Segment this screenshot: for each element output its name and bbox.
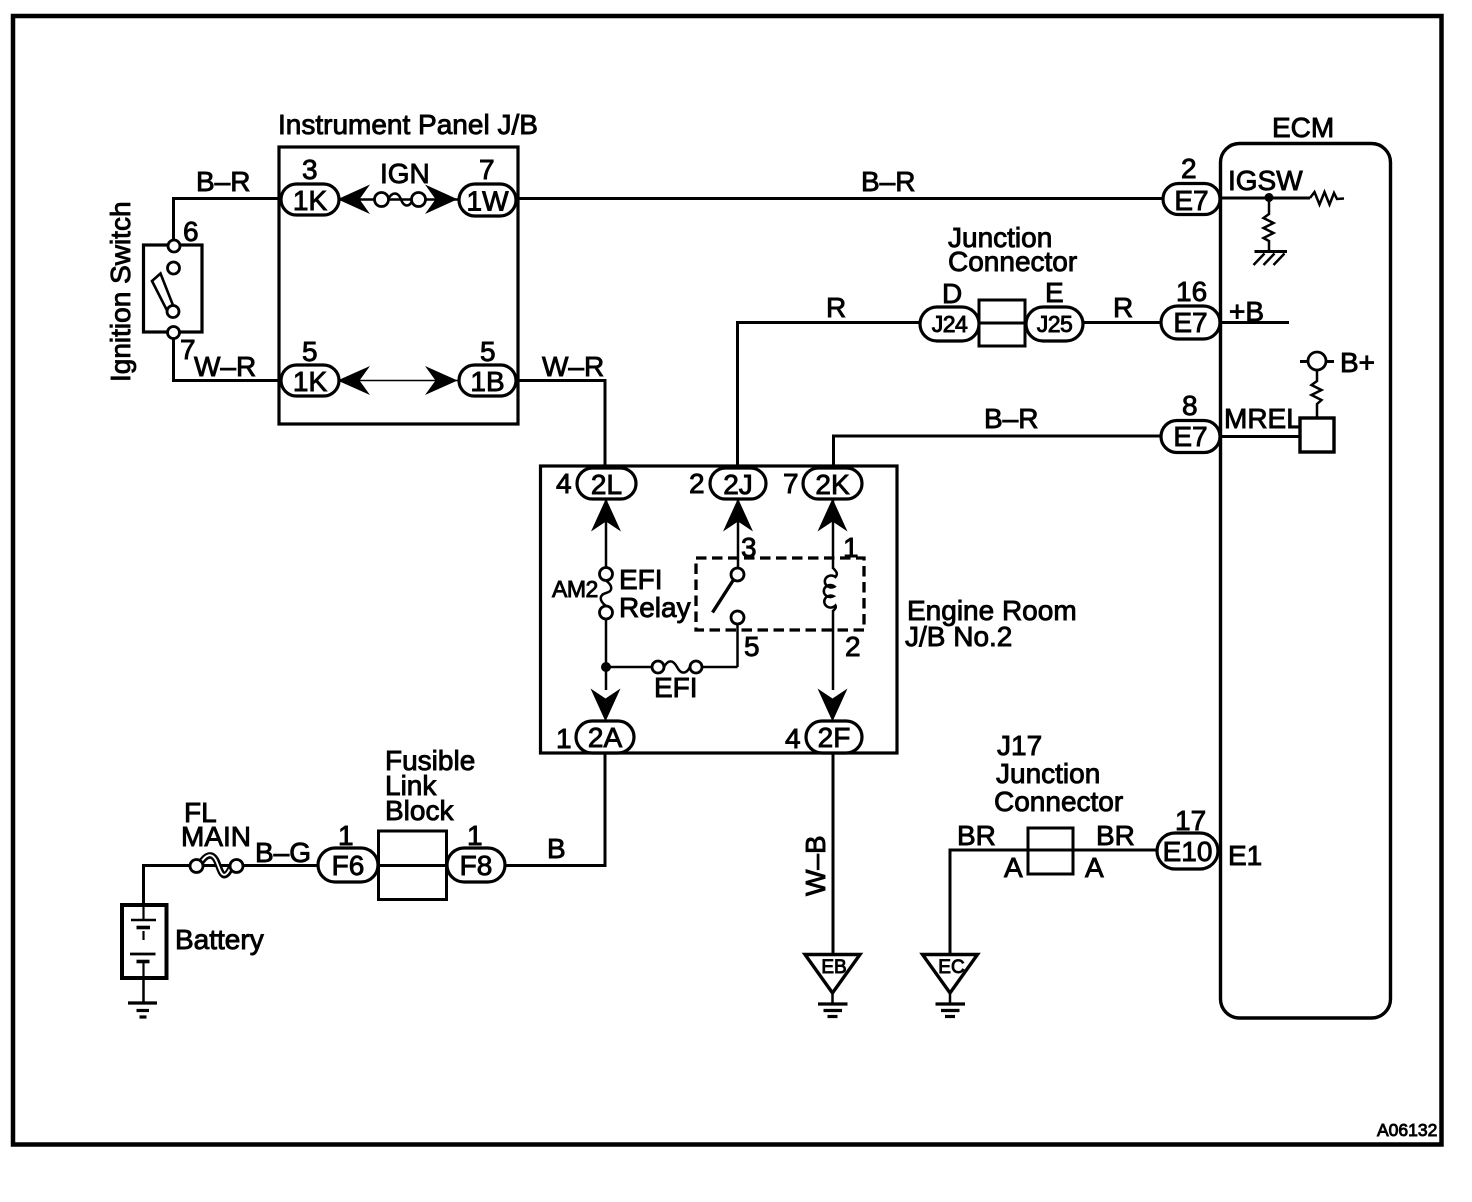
chevron arrow left (1K side, bottom row) bbox=[338, 366, 371, 395]
chevron arrow up into 2J bbox=[723, 499, 753, 532]
wire battery to F6 bbox=[144, 866, 319, 906]
svg-text:5: 5 bbox=[302, 336, 318, 367]
label MREL bbox=[1224, 403, 1302, 434]
svg-text:Junction: Junction bbox=[996, 758, 1100, 789]
svg-text:2F: 2F bbox=[818, 722, 851, 753]
ignition switch lever bbox=[152, 274, 174, 310]
connector 2K pin 7 bbox=[803, 468, 862, 500]
svg-text:1K: 1K bbox=[293, 366, 328, 397]
EFI relay dashed box bbox=[696, 558, 864, 630]
chevron arrow up into 2L bbox=[591, 499, 621, 532]
pin number 6 bbox=[183, 216, 199, 247]
svg-text:F6: F6 bbox=[332, 850, 365, 881]
MREL relay coil box bbox=[1300, 418, 1334, 452]
svg-text:4: 4 bbox=[785, 723, 801, 754]
ignition switch pin 7 terminal bbox=[168, 327, 180, 339]
pin number 16 bbox=[1176, 276, 1207, 307]
wire +B internal bbox=[1220, 321, 1289, 324]
wire B-R from 2K up to E7 pin 8 bbox=[834, 436, 1164, 468]
svg-text:6: 6 bbox=[183, 216, 199, 247]
pin number 17 bbox=[1175, 805, 1206, 836]
wire B-R from 1W to ECM E7 pin 2 bbox=[516, 197, 1163, 200]
pin number 4 bbox=[556, 468, 572, 499]
svg-text:Connector: Connector bbox=[948, 246, 1077, 277]
label Junction Connector bbox=[948, 222, 1077, 277]
label AM2 bbox=[552, 576, 598, 602]
svg-text:7: 7 bbox=[180, 334, 196, 365]
svg-text:1: 1 bbox=[556, 723, 572, 754]
label J17 Junction Connector bbox=[994, 730, 1123, 817]
svg-text:IGN: IGN bbox=[380, 158, 430, 189]
label IGSW bbox=[1228, 165, 1303, 196]
chevron arrow down into 2A bbox=[591, 689, 621, 722]
svg-text:B–G: B–G bbox=[255, 837, 311, 868]
svg-text:D: D bbox=[942, 278, 962, 309]
svg-text:E1: E1 bbox=[1228, 840, 1262, 871]
label R right bbox=[1113, 292, 1133, 323]
connector 1B pin 5 bbox=[459, 365, 516, 397]
relay switch contact upper bbox=[731, 568, 744, 581]
pin number 3 bbox=[302, 154, 318, 185]
ground EB bbox=[805, 955, 860, 1017]
svg-text:BR: BR bbox=[1096, 820, 1135, 851]
label IGN bbox=[380, 158, 430, 189]
connector 1W pin 7 bbox=[459, 184, 516, 217]
resistor IGSW (horizontal zigzag) bbox=[1310, 192, 1344, 205]
svg-text:E: E bbox=[1045, 277, 1064, 308]
fuse AM2 bbox=[600, 568, 613, 620]
label EFI Relay bbox=[619, 564, 691, 623]
svg-text:IGSW: IGSW bbox=[1228, 165, 1303, 196]
label Battery bbox=[175, 924, 264, 955]
svg-text:R: R bbox=[1113, 292, 1133, 323]
label ECM bbox=[1272, 112, 1334, 143]
svg-text:E10: E10 bbox=[1163, 836, 1213, 867]
svg-text:2: 2 bbox=[845, 631, 861, 662]
svg-text:EFI: EFI bbox=[654, 672, 698, 703]
ground chassis symbol (IGSW pulldown) bbox=[1254, 252, 1288, 266]
wire W-B from 2F down to EB ground bbox=[832, 753, 835, 954]
label Engine Room J/B No.2 bbox=[905, 595, 1077, 652]
junction connector square J24/J25 bbox=[979, 300, 1025, 346]
label B bbox=[547, 833, 566, 864]
chevron arrow right (1W side, top row) bbox=[425, 185, 458, 215]
wire between lower chevrons bbox=[339, 380, 459, 382]
pin number 1 (relay) bbox=[843, 532, 859, 563]
svg-text:AM2: AM2 bbox=[552, 576, 598, 602]
svg-text:Ignition Switch: Ignition Switch bbox=[105, 201, 136, 382]
label EFI (fuse) bbox=[654, 672, 698, 703]
ECM box bbox=[1221, 144, 1391, 1019]
svg-text:1: 1 bbox=[467, 820, 483, 851]
label A06132 bbox=[1377, 1120, 1437, 1140]
svg-text:16: 16 bbox=[1176, 276, 1207, 307]
svg-text:7: 7 bbox=[479, 154, 495, 185]
connector E7 pin 16 bbox=[1161, 306, 1220, 339]
Engine Room J/B No.2 box bbox=[541, 466, 898, 753]
wire W-R from ignition switch pin 7 to 1K bbox=[174, 337, 282, 381]
svg-text:W–R: W–R bbox=[542, 351, 604, 382]
svg-text:J17: J17 bbox=[997, 730, 1042, 761]
chevron arrow down into 2F bbox=[818, 689, 848, 722]
label Fusible Link Block bbox=[385, 745, 475, 826]
svg-text:1: 1 bbox=[338, 820, 354, 851]
svg-text:B: B bbox=[547, 833, 566, 864]
label E1 bbox=[1228, 840, 1262, 871]
wire IGSW internal bbox=[1220, 197, 1310, 200]
svg-text:MREL: MREL bbox=[1224, 403, 1302, 434]
svg-text:2L: 2L bbox=[591, 469, 622, 500]
ignition switch contact circle bbox=[168, 262, 180, 274]
svg-text:7: 7 bbox=[783, 468, 799, 499]
svg-text:5: 5 bbox=[744, 631, 760, 662]
connector J25 bbox=[1026, 307, 1083, 341]
wire B from F8 up to 2A bbox=[505, 753, 605, 866]
wire 2J branch down to relay switch bbox=[737, 499, 740, 568]
svg-text:J/B No.2: J/B No.2 bbox=[905, 621, 1012, 652]
svg-text:2A: 2A bbox=[588, 722, 623, 753]
label B+ bbox=[1340, 347, 1375, 378]
chevron arrow left (1K side, top row) bbox=[338, 185, 371, 215]
ground below battery bbox=[128, 978, 157, 1017]
junction connector square J17 bbox=[1028, 828, 1073, 874]
label W-B (rotated) bbox=[800, 835, 831, 896]
chevron arrow up into 2K bbox=[818, 499, 848, 532]
pin number 7 above 1W bbox=[479, 154, 495, 185]
svg-text:1: 1 bbox=[843, 532, 859, 563]
svg-text:Block: Block bbox=[385, 795, 454, 826]
resistor to ground (vertical zigzag) bbox=[1264, 201, 1274, 251]
pin letter E bbox=[1045, 277, 1064, 308]
svg-text:8: 8 bbox=[1182, 390, 1198, 421]
wire BR from J17 to E10 bbox=[1073, 849, 1157, 852]
relay switch contact lower bbox=[731, 611, 744, 624]
svg-text:2: 2 bbox=[689, 468, 705, 499]
fusible link FL MAIN symbol bbox=[190, 855, 243, 875]
pin number 5 above lower 1K bbox=[302, 336, 318, 367]
wire B-R from ignition switch pin 6 to 1K bbox=[174, 199, 282, 242]
Instrument Panel J/B box bbox=[279, 147, 518, 424]
label BR left bbox=[957, 820, 996, 851]
battery bbox=[122, 905, 167, 978]
relay coil bbox=[824, 568, 837, 611]
ignition switch box bbox=[144, 245, 203, 332]
svg-text:5: 5 bbox=[480, 336, 496, 367]
pin number 5 above 1B bbox=[480, 336, 496, 367]
pin number 2 (2J) bbox=[689, 468, 705, 499]
connector F8 pin 1 bbox=[447, 848, 505, 882]
svg-text:EFI: EFI bbox=[619, 564, 663, 595]
wire MREL internal bbox=[1220, 435, 1300, 438]
fusible link block square bbox=[379, 831, 447, 900]
label +B bbox=[1229, 296, 1264, 327]
svg-text:EC: EC bbox=[938, 957, 964, 978]
svg-text:3: 3 bbox=[741, 532, 757, 563]
svg-text:J24: J24 bbox=[932, 311, 968, 337]
battery feed symbol B+ bbox=[1300, 352, 1334, 418]
connector E10 pin 17 bbox=[1157, 833, 1218, 869]
svg-text:3: 3 bbox=[302, 154, 318, 185]
svg-text:BR: BR bbox=[957, 820, 996, 851]
label BR right bbox=[1096, 820, 1135, 851]
svg-text:R: R bbox=[826, 292, 846, 323]
wire R from 2J up to J24 bbox=[738, 323, 921, 469]
svg-text:17: 17 bbox=[1175, 805, 1206, 836]
connector F6 pin 1 bbox=[318, 848, 378, 882]
pin number 8 bbox=[1182, 390, 1198, 421]
ground EC bbox=[923, 955, 978, 1017]
fuse IGN bbox=[375, 193, 426, 207]
svg-text:B–R: B–R bbox=[196, 166, 250, 197]
node on IGSW wire bbox=[1265, 193, 1274, 202]
svg-text:J25: J25 bbox=[1037, 311, 1073, 337]
pin number 3 (relay) bbox=[741, 532, 757, 563]
svg-text:F8: F8 bbox=[460, 850, 493, 881]
svg-text:B–R: B–R bbox=[984, 403, 1038, 434]
connector 2L pin 4 bbox=[577, 468, 636, 500]
connector E7 pin 8 bbox=[1161, 421, 1220, 453]
wire 2L branch (AM2 fuse chain) bbox=[605, 499, 608, 690]
svg-text:A: A bbox=[1004, 852, 1023, 883]
svg-text:E7: E7 bbox=[1174, 185, 1208, 216]
svg-text:2J: 2J bbox=[723, 469, 753, 500]
svg-text:MAIN: MAIN bbox=[181, 821, 251, 852]
svg-text:ECM: ECM bbox=[1272, 112, 1334, 143]
node junction dot below AM2 bbox=[601, 662, 611, 672]
svg-text:2K: 2K bbox=[815, 469, 850, 500]
svg-text:1W: 1W bbox=[467, 186, 510, 217]
ignition switch pin 6 terminal bbox=[168, 240, 180, 252]
svg-text:B–R: B–R bbox=[861, 166, 915, 197]
svg-text:Relay: Relay bbox=[619, 592, 691, 623]
label R left bbox=[826, 292, 846, 323]
label B-R bbox=[196, 166, 250, 197]
connector 2A pin 1 bbox=[576, 721, 634, 753]
pin number 7 (2K) bbox=[783, 468, 799, 499]
svg-text:A: A bbox=[1085, 852, 1104, 883]
pin letter A left bbox=[1004, 852, 1023, 883]
label Ignition Switch bbox=[105, 201, 136, 382]
wire through IGN fuse row bbox=[339, 198, 459, 201]
label Instrument Panel J/B bbox=[278, 109, 538, 140]
pin number 1 (F8) bbox=[467, 820, 483, 851]
pin letter A right bbox=[1085, 852, 1104, 883]
label W-R right of 1B bbox=[542, 351, 604, 382]
svg-text:B+: B+ bbox=[1340, 347, 1375, 378]
svg-text:4: 4 bbox=[556, 468, 572, 499]
svg-text:Battery: Battery bbox=[175, 924, 264, 955]
relay switch lever bbox=[713, 579, 735, 613]
svg-text:Connector: Connector bbox=[994, 786, 1123, 817]
wire EFI fuse row bbox=[606, 624, 738, 667]
svg-text:E7: E7 bbox=[1173, 421, 1207, 452]
connector J24 bbox=[920, 307, 979, 341]
svg-text:A06132: A06132 bbox=[1377, 1120, 1437, 1140]
pin number 1 (F6) bbox=[338, 820, 354, 851]
label B-G bbox=[255, 837, 311, 868]
svg-text:E7: E7 bbox=[1173, 307, 1207, 338]
pin number 7 bbox=[180, 334, 196, 365]
label W-R bbox=[194, 351, 256, 382]
fuse EFI bbox=[652, 661, 702, 673]
connector E7 pin 2 bbox=[1163, 184, 1220, 217]
ignition switch contact circle lower bbox=[167, 306, 179, 318]
svg-text:1K: 1K bbox=[293, 185, 328, 216]
label B-R (MREL wire) bbox=[984, 403, 1038, 434]
pin number 4 (2F) bbox=[785, 723, 801, 754]
svg-text:EB: EB bbox=[821, 957, 846, 978]
wire 1B to engine room J/B 2L bbox=[516, 381, 605, 469]
connector 1K pin 3 bbox=[281, 184, 339, 216]
label FL MAIN bbox=[181, 797, 251, 852]
connector 1K pin 5 bbox=[281, 365, 339, 397]
svg-text:1B: 1B bbox=[470, 366, 504, 397]
svg-text:Instrument Panel J/B: Instrument Panel J/B bbox=[278, 109, 538, 140]
wire BR from EC ground up to J17 bbox=[950, 850, 1028, 954]
svg-text:2: 2 bbox=[1181, 153, 1197, 184]
wire R from J25 to E7 pin 16 bbox=[1083, 321, 1163, 324]
pin number 2 (relay) bbox=[845, 631, 861, 662]
connector 2J pin 2 bbox=[710, 468, 766, 500]
pin number 5 (relay) bbox=[744, 631, 760, 662]
connector 2F pin 4 bbox=[806, 721, 862, 753]
chevron arrow right (1B side, bottom row) bbox=[425, 366, 458, 395]
pin letter D bbox=[942, 278, 962, 309]
svg-text:W–R: W–R bbox=[194, 351, 256, 382]
wire 2K branch down through relay coil bbox=[832, 499, 835, 690]
pin number 1 (2A) bbox=[556, 723, 572, 754]
svg-text:W–B: W–B bbox=[800, 835, 831, 896]
label B-R (top long wire) bbox=[861, 166, 915, 197]
pin number 2 bbox=[1181, 153, 1197, 184]
